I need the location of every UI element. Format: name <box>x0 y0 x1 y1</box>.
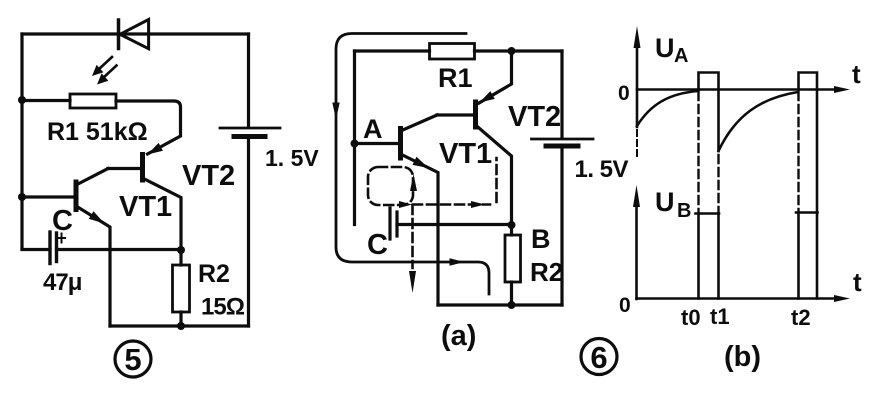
UB y-axis arrowhead <box>633 185 640 207</box>
wire R1 to VT2 emitter <box>116 101 181 154</box>
svg-text:0: 0 <box>619 294 631 317</box>
svg-text:R1 51kΩ: R1 51kΩ <box>47 118 148 146</box>
circled 5 <box>115 341 151 377</box>
node R1 top junction <box>18 96 26 104</box>
wire capacitor middle right <box>397 223 512 226</box>
wire R2 middle bottom <box>510 282 513 305</box>
transistor VT2 middle bar <box>473 102 478 127</box>
wire right rail bottom <box>560 149 563 305</box>
svg-text:5: 5 <box>124 342 141 377</box>
battery GB short plate <box>234 134 265 139</box>
dashed loop up arrowhead <box>410 174 417 191</box>
wire left rail <box>20 34 23 249</box>
capacitor C middle plate left <box>388 208 391 239</box>
svg-text:t: t <box>852 59 861 89</box>
dashed charge path arrowhead <box>471 201 485 208</box>
UB x-axis arrowhead <box>834 295 850 302</box>
wire VT1 middle emitter <box>401 154 439 305</box>
svg-text:(a): (a) <box>441 320 476 352</box>
svg-text:A: A <box>674 45 688 67</box>
UA curve 1 <box>637 91 698 126</box>
wire VT1 base <box>22 195 76 198</box>
svg-text:15Ω: 15Ω <box>201 294 245 321</box>
node A junction <box>351 140 359 148</box>
VT1 middle emitter arrowhead <box>413 157 429 168</box>
UA pulse t2 <box>799 73 818 299</box>
svg-text:1. 5V: 1. 5V <box>575 156 629 183</box>
wire VT1 emitter <box>76 206 110 326</box>
svg-text:VT1: VT1 <box>439 138 492 170</box>
UA y-axis arrowhead <box>634 26 641 48</box>
dashed charge path vertical <box>495 158 498 202</box>
wire node to R2 <box>179 250 182 265</box>
svg-text:R2: R2 <box>198 260 230 288</box>
capacitor polarity plus <box>58 234 66 243</box>
wire bottom rail middle <box>438 303 562 306</box>
capacitor C plate left <box>48 232 51 264</box>
wire capacitor to node <box>57 248 182 251</box>
svg-text:R1: R1 <box>438 63 473 93</box>
UB pulse 1 right edge <box>717 214 720 299</box>
wire VT1 middle collector <box>401 115 438 131</box>
svg-text:6: 6 <box>590 340 607 375</box>
dashed loop right arrowhead <box>399 201 412 208</box>
resistor R2 middle <box>505 235 521 282</box>
transistor VT2 bar <box>140 155 145 181</box>
dashed t0 <box>697 92 699 212</box>
svg-text:1. 5V: 1. 5V <box>265 145 319 171</box>
dashed charge path horizontal <box>413 203 490 206</box>
UA x-axis arrowhead <box>834 86 850 93</box>
node bottom rail middle junction <box>508 301 516 309</box>
svg-text:t2: t2 <box>791 305 811 330</box>
UA curve 2 <box>719 92 799 151</box>
node bottom rail junction <box>177 322 185 330</box>
UB pulse 2 top <box>796 211 818 214</box>
node R2 middle top junction <box>508 221 516 229</box>
feedback loop arrow path <box>336 34 489 295</box>
wire VT2 middle collector <box>476 125 512 225</box>
wire right rail top <box>247 34 250 127</box>
svg-text:R2: R2 <box>530 257 563 287</box>
wire rail to capacitor <box>22 248 50 251</box>
wire bottom rail <box>110 324 249 327</box>
svg-text:B: B <box>677 200 691 222</box>
capacitor C middle plate right <box>395 212 398 236</box>
wire right rail to battery <box>560 51 563 138</box>
node R1 right junction <box>508 47 516 55</box>
feedback loop down arrowhead <box>332 103 339 120</box>
svg-text:t1: t1 <box>710 304 730 329</box>
svg-text:t: t <box>853 267 862 297</box>
wire VT1 collector <box>76 169 108 186</box>
svg-text:VT2: VT2 <box>508 101 561 133</box>
battery middle long plate <box>532 138 594 141</box>
svg-text:t0: t0 <box>681 305 701 330</box>
wire VT2 collector <box>143 178 182 250</box>
svg-text:U: U <box>655 187 675 217</box>
resistor R2 <box>173 265 190 312</box>
svg-text:C: C <box>52 205 73 237</box>
resistor R1 <box>70 94 116 108</box>
wire VT2 emitter middle <box>479 51 512 103</box>
node VT1 base junction <box>18 193 26 201</box>
UA y-axis <box>636 40 639 127</box>
svg-text:U: U <box>655 33 675 63</box>
svg-text:VT2: VT2 <box>182 160 235 192</box>
wire R2 to bottom rail <box>179 312 182 326</box>
node VT2 collector junction <box>177 246 185 254</box>
capacitor C plate right <box>55 233 58 262</box>
UB pulse 1 left edge <box>697 214 700 299</box>
resistor R1 middle <box>430 44 475 60</box>
VT1 emitter arrowhead <box>89 211 105 223</box>
wire VT1 middle base <box>355 142 401 145</box>
UB x-axis <box>637 297 841 300</box>
LED D cathode bar <box>117 20 121 49</box>
svg-text:A: A <box>363 114 383 144</box>
dashed t2 <box>797 92 799 211</box>
VT2 emitter arrowhead <box>148 143 163 155</box>
wire top rail left circuit <box>22 32 249 35</box>
wire VT2 middle base link <box>437 113 476 116</box>
svg-text:C: C <box>367 229 388 261</box>
svg-text:B: B <box>531 224 551 254</box>
wire R1 to right rail <box>475 49 563 52</box>
LED light arrow 1 <box>92 57 112 76</box>
UA pulse t0-t1 <box>699 73 719 152</box>
dashed discharge loop <box>368 167 413 205</box>
LED D triangle <box>120 20 149 49</box>
LED light arrow 2 <box>97 66 117 85</box>
dashed t1 <box>717 155 719 212</box>
wire inner left rail <box>353 51 356 225</box>
UB pulse 1 top <box>696 212 720 215</box>
UB y-axis <box>635 200 638 299</box>
dashed down line <box>411 205 414 268</box>
UA x-axis <box>637 88 840 91</box>
wire inner top rail <box>355 49 430 52</box>
wire VT2 base link <box>108 167 143 170</box>
svg-text:VT1: VT1 <box>119 191 172 223</box>
svg-text:(b): (b) <box>724 341 761 373</box>
wire to R1 <box>22 99 70 102</box>
transistor VT1 bar <box>74 182 79 210</box>
battery GB long plate <box>220 127 280 130</box>
wire right rail bottom <box>247 139 250 326</box>
VT2 middle emitter arrowhead <box>480 91 495 102</box>
svg-text:0: 0 <box>618 82 630 105</box>
feedback loop right arrowhead <box>450 258 465 265</box>
wire node to R2 middle <box>510 225 513 235</box>
battery middle short plate <box>546 144 578 149</box>
transistor VT1 middle bar <box>398 129 403 159</box>
dashed down arrowhead <box>409 271 416 293</box>
circled 6 <box>581 339 617 375</box>
svg-text:47μ: 47μ <box>43 269 82 296</box>
UB pulse 2 left edge <box>797 213 800 299</box>
